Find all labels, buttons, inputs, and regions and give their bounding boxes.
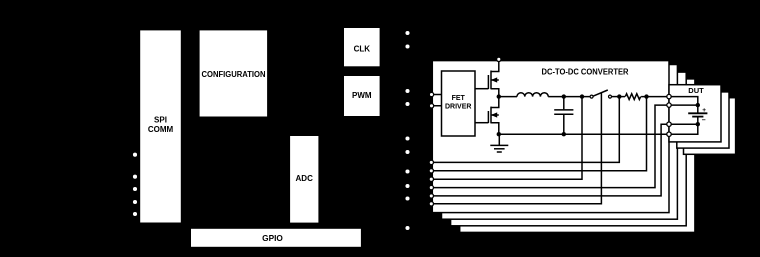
transistor Q2: [475, 97, 499, 135]
wire Q1 drain from top terminal: [491, 61, 499, 72]
terminal circle out sense-minus: [667, 122, 671, 126]
block ADC: [290, 136, 318, 223]
transistor Q1: [475, 71, 499, 97]
channel 3 DUT card: [684, 98, 736, 155]
wire sense W5 output sense-minus: [432, 124, 669, 196]
node battery top dot: [696, 103, 700, 107]
svg-text:CLK: CLK: [354, 44, 371, 53]
inductor L1: [517, 93, 548, 97]
wire inductor to cap node: [548, 96, 591, 98]
channel 1 converter card: [432, 61, 669, 213]
block CONFIGURATION: [200, 30, 268, 116]
svg-text:DUT: DUT: [688, 86, 704, 95]
terminal circle W3: [429, 177, 433, 181]
node switch-node dot: [497, 94, 501, 98]
node battery bottom dot: [696, 122, 700, 126]
resistor R1 shunt: [625, 94, 640, 100]
channel 1 DUT card: [669, 85, 721, 142]
terminal circle driver input 2: [429, 104, 433, 108]
channel 4 converter card: [460, 79, 695, 233]
block SPI COMM: [140, 30, 181, 222]
node cap top dot: [562, 94, 566, 98]
wire sense W4 output sense-plus: [432, 105, 669, 188]
svg-text:–: –: [702, 117, 706, 124]
channel 2 DUT card: [677, 92, 729, 148]
wire DUT force-plus: [669, 97, 698, 106]
node cap bottom dot: [562, 132, 566, 136]
capacitor C1: [554, 97, 573, 135]
block GPIO: [191, 229, 361, 247]
wire W6 switch control: [432, 93, 601, 204]
svg-text:COMM: COMM: [148, 125, 174, 134]
channel 2 converter card: [442, 65, 678, 220]
wire bottom rail: [499, 133, 669, 135]
wire switch node to inductor: [499, 96, 517, 98]
terminal circle driver input 1: [429, 92, 433, 96]
terminal circle out force-plus: [667, 94, 671, 98]
svg-text:SPI: SPI: [154, 115, 167, 124]
wire sense W3 from switch input: [432, 97, 582, 180]
node dots bus column: [405, 31, 409, 230]
wire DUT sense-plus: [669, 104, 698, 106]
terminal circle W1: [429, 160, 433, 164]
node resistor right dot: [644, 94, 648, 98]
wire switch out to resistor: [612, 96, 626, 98]
terminal circle W6: [429, 202, 433, 206]
svg-text:ADC: ADC: [296, 174, 314, 183]
wire sense W2 from resistor right: [432, 97, 646, 171]
terminal circle top drain: [497, 57, 501, 61]
battery BT1: [688, 105, 707, 124]
block PWM: [344, 76, 380, 116]
svg-text:DRIVER: DRIVER: [445, 104, 471, 111]
terminal circle out force-minus: [667, 132, 671, 136]
node rail dot: [497, 132, 501, 136]
wire resistor to output: [641, 96, 669, 98]
terminal circle W5: [429, 194, 433, 198]
terminal circle W2: [429, 169, 433, 173]
svg-text:DC-TO-DC CONVERTER: DC-TO-DC CONVERTER: [542, 68, 629, 77]
svg-text:+: +: [702, 107, 706, 114]
wire DUT force-minus: [669, 124, 698, 134]
node switch input dot: [580, 94, 584, 98]
svg-text:PWM: PWM: [352, 91, 372, 100]
ground: [490, 134, 508, 152]
svg-text:GPIO: GPIO: [262, 233, 283, 243]
node dots left of SPI COMM: [133, 153, 137, 216]
terminal circle out sense-plus: [667, 103, 671, 107]
svg-text:FET: FET: [452, 95, 466, 102]
wire driver input stubs: [432, 95, 441, 106]
wire DUT sense-minus: [669, 123, 698, 125]
svg-text:CONFIGURATION: CONFIGURATION: [202, 70, 266, 79]
node resistor left dot: [617, 94, 621, 98]
block CLK: [344, 28, 380, 66]
wire sense W1 from resistor left: [432, 97, 619, 163]
switch S1: [590, 95, 593, 98]
terminal circle W4: [429, 185, 433, 189]
channel 3 converter card: [451, 72, 687, 226]
op-amp FET DRIVER box U1: [442, 71, 476, 136]
